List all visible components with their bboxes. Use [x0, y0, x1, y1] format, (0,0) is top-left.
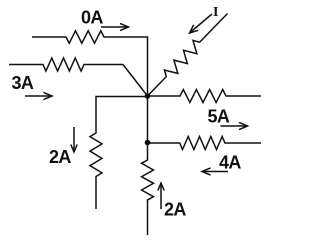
svg-text:3A: 3A: [12, 73, 34, 93]
svg-text:2A: 2A: [49, 147, 71, 167]
svg-text:5A: 5A: [208, 107, 230, 127]
svg-text:I: I: [213, 5, 218, 20]
svg-text:2A: 2A: [164, 200, 186, 220]
svg-text:4A: 4A: [219, 153, 241, 173]
svg-text:0A: 0A: [81, 8, 103, 28]
